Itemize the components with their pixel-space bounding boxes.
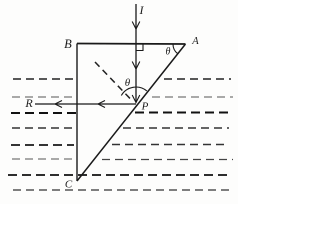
svg-text:A: A bbox=[191, 36, 199, 47]
liquid dashes left row 1 bbox=[13, 78, 76, 80]
liquid dashes right row 2 bbox=[152, 96, 233, 98]
incident ray I bbox=[135, 4, 137, 103]
prism hypotenuse C-A bbox=[77, 44, 186, 181]
svg-text:B: B bbox=[64, 37, 72, 51]
svg-text:C: C bbox=[65, 179, 73, 191]
dashed normal at P bbox=[95, 62, 130, 99]
angle arc at P bbox=[121, 87, 147, 95]
prism top face B-A bbox=[77, 43, 186, 46]
liquid dashes right row 5 bbox=[112, 144, 227, 146]
liquid dashes full row 7 bbox=[8, 174, 230, 176]
svg-text:R: R bbox=[24, 96, 33, 110]
liquid dashes left row 2 bbox=[12, 96, 76, 98]
right angle mark at top face bbox=[136, 44, 143, 51]
reflected ray arrowhead 1 bbox=[55, 101, 62, 108]
svg-text:P: P bbox=[141, 101, 149, 113]
svg-text:I: I bbox=[139, 3, 145, 17]
incident ray arrowhead at P bbox=[132, 95, 140, 103]
liquid dashes right row 4 bbox=[123, 127, 229, 129]
prism left face B-C bbox=[76, 44, 78, 182]
incident ray arrowhead 1 bbox=[132, 22, 140, 30]
liquid dashes full row 8 bbox=[13, 189, 229, 191]
reflected ray arrowhead 2 bbox=[98, 101, 105, 108]
liquid dashes left row 6 bbox=[12, 158, 76, 160]
incident ray arrowhead 2 bbox=[132, 62, 140, 70]
liquid dashes right row 3 bbox=[135, 112, 233, 114]
svg-text:θ: θ bbox=[125, 77, 131, 89]
angle arc at A bbox=[173, 44, 178, 53]
liquid dashes right row 6 bbox=[102, 159, 233, 161]
svg-text:θ: θ bbox=[166, 47, 171, 58]
liquid dashes left row 3 bbox=[11, 112, 76, 114]
liquid dashes left row 5 bbox=[11, 144, 74, 146]
liquid dashes right row 1 bbox=[164, 78, 231, 80]
liquid dashes left row 4 bbox=[12, 127, 76, 129]
reflected ray R bbox=[35, 103, 136, 105]
